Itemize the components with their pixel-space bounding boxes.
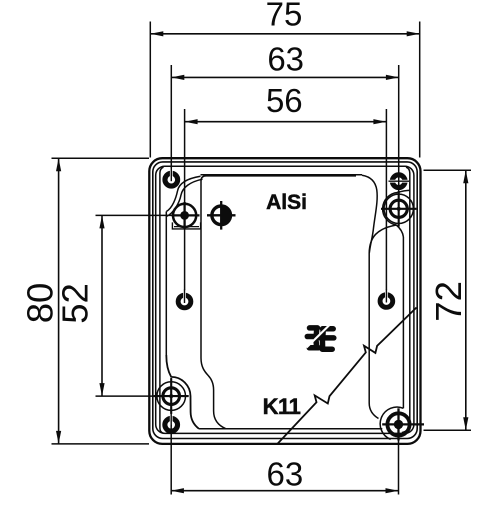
- svg-text:AlSi: AlSi: [266, 191, 307, 214]
- svg-text:K11: K11: [263, 394, 301, 419]
- svg-text:72: 72: [428, 281, 469, 322]
- svg-text:63: 63: [267, 456, 304, 493]
- svg-text:52: 52: [55, 283, 96, 324]
- svg-text:75: 75: [266, 0, 303, 33]
- svg-text:56: 56: [266, 82, 303, 119]
- svg-text:63: 63: [267, 40, 304, 77]
